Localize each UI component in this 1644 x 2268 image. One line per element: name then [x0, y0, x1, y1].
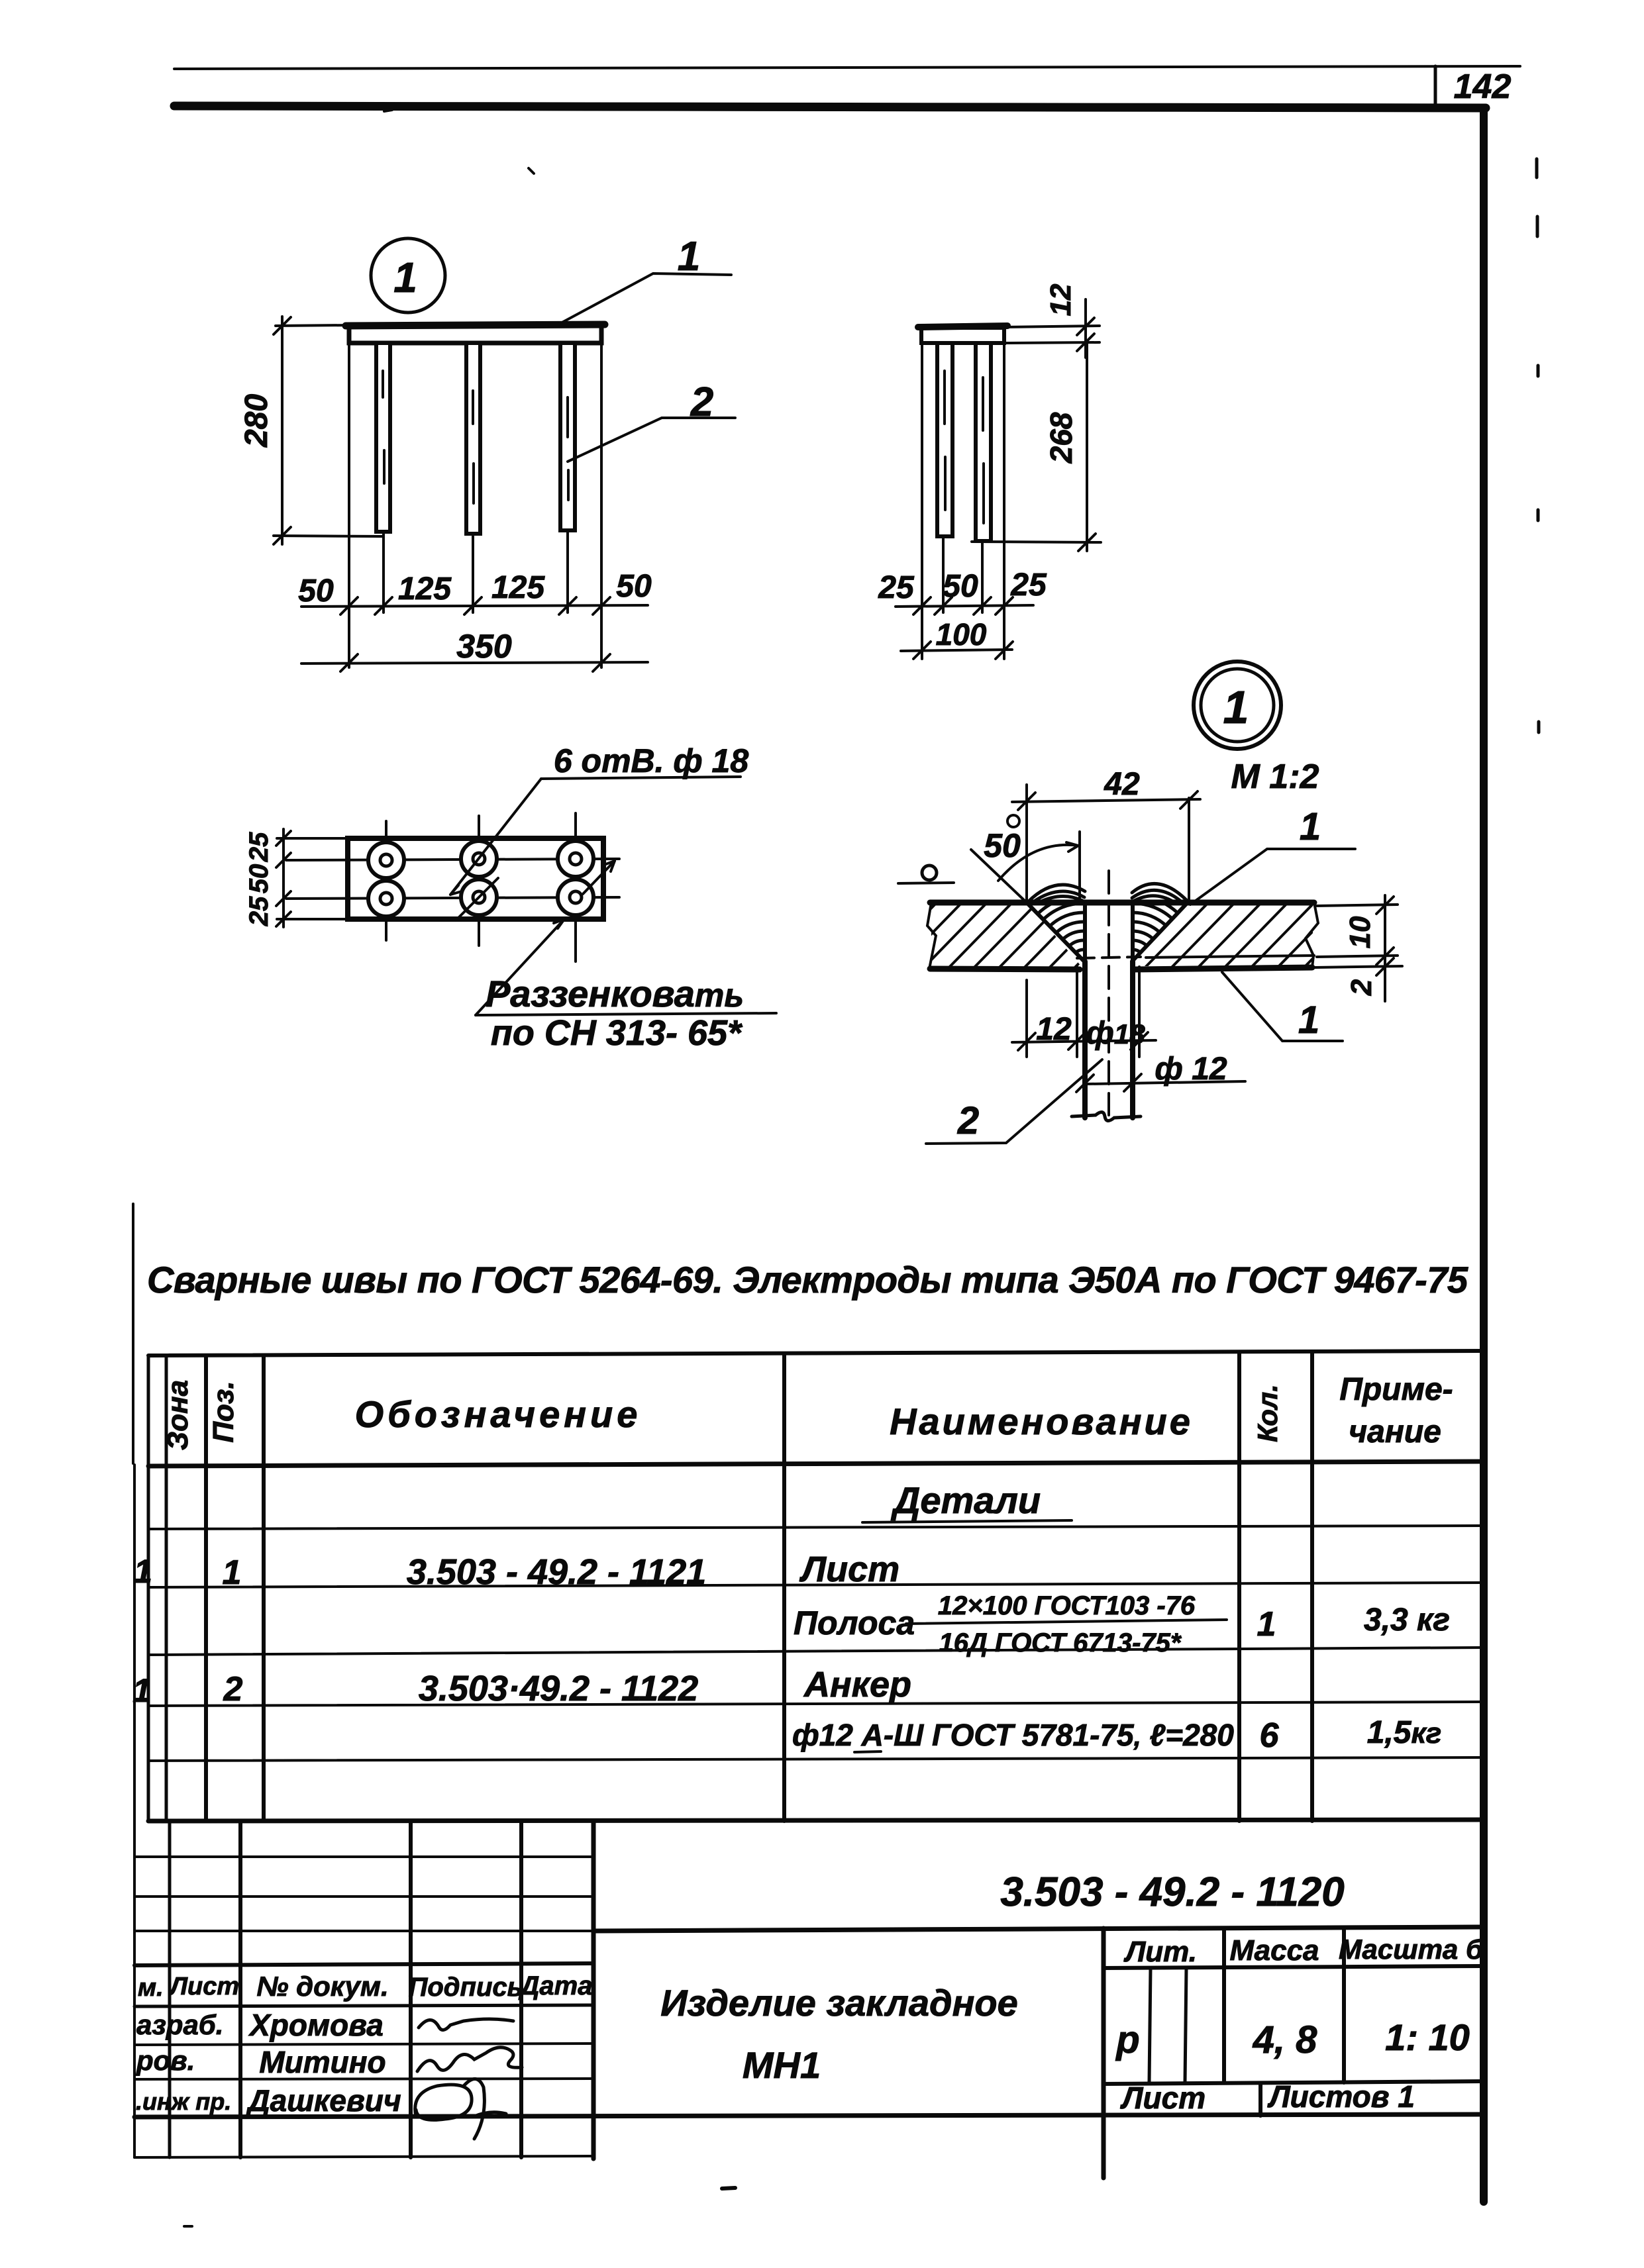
- svg-text:50: 50: [984, 827, 1021, 864]
- svg-text:Лит.: Лит.: [1123, 1936, 1197, 1968]
- detail: dim line 12 / f18: [1012, 1040, 1156, 1042]
- svg-text:1: 1: [1257, 1605, 1276, 1644]
- svg-text:Лист: Лист: [168, 1973, 239, 2000]
- front view: plate (item 1): [349, 326, 601, 343]
- side view: dim 268: [972, 542, 1101, 542]
- title block: left grid horizontals: [134, 1855, 593, 1858]
- detail: countersink slope left: [1027, 903, 1084, 961]
- svg-text:чание: чание: [1349, 1414, 1441, 1450]
- svg-text:р: р: [1115, 2018, 1139, 2061]
- svg-text:1: 1: [134, 1553, 152, 1590]
- svg-text:.инж пр.: .инж пр.: [136, 2088, 231, 2115]
- svg-text:Полоса: Полоса: [794, 1604, 915, 1642]
- svg-text:25: 25: [1010, 567, 1047, 603]
- svg-text:125: 125: [398, 571, 452, 607]
- detail: dim 42 extensions: [1025, 785, 1028, 901]
- top view: hole 4 outer: [368, 881, 404, 916]
- top view: hole 2 outer: [461, 841, 497, 877]
- side view: extension lines below: [921, 344, 923, 659]
- top view: note leader: [476, 919, 564, 1015]
- top view: hole 5 outer: [461, 879, 497, 915]
- svg-text:1: 1: [1298, 999, 1319, 1042]
- svg-text:25: 25: [878, 570, 915, 605]
- title block: signature Dashkevich: [415, 2079, 506, 2139]
- svg-text:Наименование: Наименование: [890, 1401, 1193, 1442]
- svg-text:Раззенковать: Раззенковать: [486, 973, 744, 1014]
- detail: dim line 42: [1012, 799, 1200, 802]
- svg-text:Митино: Митино: [259, 2045, 385, 2079]
- top view: left dim extensions: [277, 837, 350, 840]
- svg-text:Сварные швы по ГОСТ 5264-69. Э: Сварные швы по ГОСТ 5264-69. Электроды т…: [147, 1259, 1468, 1301]
- svg-text:Поз.: Поз.: [207, 1381, 240, 1442]
- svg-text:350: 350: [456, 628, 512, 665]
- front view: leader and label 1: [557, 273, 731, 325]
- top view: hole 5 inner: [473, 891, 485, 903]
- front view: extension lines below: [348, 343, 350, 667]
- svg-text:Обозначение: Обозначение: [355, 1393, 642, 1435]
- front view: dim line 50/125/125/50: [301, 605, 648, 607]
- title block: line under doc number: [593, 1927, 1484, 1931]
- detail: weld cap left: [1028, 885, 1085, 902]
- svg-text:азраб.: азраб.: [136, 2009, 223, 2040]
- svg-text:Изделие закладное: Изделие закладное: [660, 1982, 1018, 2024]
- detail: hole bottom dashed line: [1077, 957, 1141, 958]
- spec table: row lines: [148, 1526, 1484, 1529]
- top view: hole 2 inner: [473, 853, 485, 865]
- svg-text:ф 12: ф 12: [1155, 1052, 1227, 1087]
- svg-text:№ докум.: № докум.: [256, 1971, 388, 2002]
- svg-text:1,5кг: 1,5кг: [1367, 1715, 1442, 1750]
- detail: dim 12 and f18 extensions: [1025, 980, 1028, 1057]
- svg-text:280: 280: [239, 394, 274, 448]
- detail: marker double circle 1: [1194, 662, 1281, 749]
- top view: hole 6 outer: [558, 879, 593, 915]
- detail: right break edge: [1306, 903, 1318, 967]
- svg-text:6: 6: [1260, 1716, 1280, 1755]
- svg-text:1: 1: [223, 1553, 242, 1592]
- svg-text:Дата: Дата: [519, 1971, 593, 2000]
- svg-text:12: 12: [1045, 283, 1077, 316]
- svg-text:142: 142: [1454, 68, 1512, 106]
- svg-text:Кол.: Кол.: [1252, 1384, 1283, 1442]
- page frame: top thin rule: [174, 66, 1520, 69]
- svg-text:3.503·49.2 - 1122: 3.503·49.2 - 1122: [419, 1669, 698, 1708]
- title block: vertical divider name/lit: [1102, 1928, 1106, 2178]
- svg-text:1: 1: [393, 254, 417, 301]
- svg-text:Масса: Масса: [1229, 1934, 1319, 1967]
- svg-text:3.503 - 49.2 - 1120: 3.503 - 49.2 - 1120: [1000, 1869, 1344, 1915]
- svg-text:2: 2: [1345, 979, 1378, 996]
- top view: countersink slash right top hole with arrow: [583, 861, 615, 894]
- front view: dim 280 extension lines: [276, 325, 351, 326]
- detail: plate top edge: [930, 900, 1314, 906]
- top view: hole centerlines horizontal: [286, 859, 619, 860]
- page frame: top thick rule: [174, 106, 1486, 108]
- svg-text:1: 1: [1223, 681, 1249, 733]
- top view: countersink slash middle bottom hole: [456, 878, 498, 920]
- detail: plate bottom edge left part: [930, 969, 1080, 969]
- title block: signature Khromova: [419, 2019, 513, 2030]
- svg-text:6 отВ. ф 18: 6 отВ. ф 18: [554, 742, 749, 779]
- svg-text:1: 1: [132, 1672, 151, 1709]
- title block: left grid verticals: [168, 1821, 172, 2157]
- detail: hatching left section: [868, 897, 1269, 973]
- detail: anchor rod sides: [1082, 961, 1088, 1118]
- side view: dim line 100: [901, 650, 1012, 651]
- svg-text:1: 1: [1300, 805, 1321, 848]
- title block: lit sub cells: [1149, 1968, 1151, 2083]
- svg-text:12×100 ГОСТ103 -76: 12×100 ГОСТ103 -76: [938, 1591, 1196, 1620]
- detail: rod dashed centerline: [1107, 871, 1110, 1115]
- side view: anchor bar front: [937, 343, 952, 536]
- detail: small o mark: [922, 865, 937, 880]
- svg-text:2: 2: [957, 1099, 979, 1142]
- svg-text:Хромова: Хромова: [248, 2008, 384, 2042]
- svg-text:Зона: Зона: [162, 1380, 194, 1450]
- svg-text:ф12 А-Ш ГОСТ 5781-75, ℓ=280: ф12 А-Ш ГОСТ 5781-75, ℓ=280: [792, 1718, 1234, 1752]
- svg-text:16Д ГОСТ 6713-75*: 16Д ГОСТ 6713-75*: [939, 1628, 1182, 1657]
- title block: lit/massa/masshtab header cells: [1104, 1966, 1484, 1968]
- title block: bottom line of name box: [134, 2114, 1484, 2117]
- svg-text:50: 50: [943, 569, 978, 604]
- title block: line under values: [1104, 2081, 1484, 2084]
- svg-text:12: 12: [1036, 1012, 1072, 1047]
- detail: dims 10 and 2 extensions: [1315, 905, 1398, 906]
- top view: hole 6 inner: [570, 891, 582, 903]
- detail: left break edge: [927, 903, 936, 969]
- svg-text:Детали: Детали: [891, 1479, 1041, 1521]
- title block: list / listov row: [1259, 2084, 1262, 2116]
- front view: anchor bar right: [560, 343, 575, 530]
- top view: hole 3 outer: [558, 841, 593, 877]
- top view: plate outline: [348, 838, 603, 919]
- detail: dim line 10/2: [1384, 895, 1386, 1001]
- svg-text:2: 2: [223, 1670, 243, 1708]
- svg-text:Подпись: Подпись: [409, 1973, 523, 2002]
- top view: hole centerlines vertical: [385, 821, 387, 940]
- detail: thin line 2mm weld root right part: [1146, 956, 1314, 958]
- side view: dim line 25/50/25: [896, 605, 1033, 607]
- detail: weld cap right: [1132, 884, 1187, 902]
- top view: hole 1 inner: [380, 854, 392, 866]
- front view: leader and label 2: [568, 418, 735, 462]
- top view: hole 4 inner: [380, 893, 392, 905]
- svg-text:Приме-: Приме-: [1339, 1372, 1453, 1407]
- page number box divider: [1434, 66, 1437, 106]
- svg-text:ров.: ров.: [136, 2045, 195, 2076]
- svg-text:100: 100: [936, 617, 987, 652]
- detail: countersink slope right: [1132, 903, 1188, 961]
- svg-text:Дашкевич: Дашкевич: [245, 2083, 401, 2118]
- svg-text:50: 50: [298, 573, 334, 609]
- margin dashes right of border: [1535, 159, 1539, 177]
- svg-text:М 1:2: М 1:2: [1231, 758, 1319, 796]
- detail: hatching right section: [1086, 894, 1508, 973]
- side view: anchor bar back: [976, 343, 991, 541]
- side view: dim 12 extensions: [1006, 326, 1100, 327]
- detail: dim f12: [1086, 1081, 1245, 1084]
- detail: weld right texture arcs: [1133, 895, 1199, 961]
- svg-text:10: 10: [1344, 916, 1376, 948]
- svg-text:42: 42: [1104, 767, 1140, 802]
- svg-text:25: 25: [244, 832, 274, 862]
- spec table: column lines: [147, 1356, 150, 1821]
- svg-text:4, 8: 4, 8: [1253, 2018, 1317, 2061]
- detail: weld left texture arcs: [1017, 895, 1084, 961]
- svg-text:2: 2: [690, 379, 713, 425]
- svg-text:1: 1: [678, 234, 700, 279]
- svg-text:Листов 1: Листов 1: [1267, 2079, 1415, 2114]
- side view: plate edge-on: [921, 328, 1004, 343]
- svg-text:125: 125: [491, 570, 545, 605]
- svg-text:1: 10: 1: 10: [1385, 2016, 1470, 2058]
- title block: signature Mitina: [417, 2047, 522, 2071]
- stray mark bottom: [722, 2188, 735, 2189]
- svg-text:м.: м.: [138, 1974, 164, 2002]
- svg-text:Масшта б: Масшта б: [1339, 1934, 1484, 1965]
- top view: hole 3 inner: [570, 853, 582, 865]
- detail: rod bottom break: [1072, 1112, 1141, 1120]
- svg-text:50: 50: [244, 864, 274, 894]
- front view: anchor bar left (item 2): [376, 343, 390, 532]
- front view: view marker circle 1: [371, 238, 445, 313]
- svg-text:3,3 кг: 3,3 кг: [1364, 1602, 1450, 1638]
- front view: dim line 350: [301, 662, 648, 664]
- top view: hole 1 outer: [368, 842, 404, 878]
- svg-text:МН1: МН1: [743, 2044, 821, 2086]
- svg-text:Лист: Лист: [1120, 2081, 1206, 2115]
- front view: dim line 280: [281, 317, 283, 544]
- svg-text:3.503 - 49.2 - 1121: 3.503 - 49.2 - 1121: [407, 1552, 706, 1592]
- front view: anchor bar middle: [466, 343, 480, 534]
- side view: dim line 12: [1084, 299, 1087, 358]
- svg-text:Лист: Лист: [799, 1550, 899, 1589]
- svg-text:по СН 313- 65*: по СН 313- 65*: [491, 1013, 743, 1053]
- svg-text:Анкер: Анкер: [803, 1665, 911, 1704]
- svg-text:50: 50: [616, 569, 652, 604]
- svg-text:268: 268: [1044, 412, 1078, 464]
- svg-text:ф18: ф18: [1086, 1016, 1145, 1051]
- top view: left dim line 25/50/25: [282, 829, 285, 927]
- page frame: left border (lower half): [132, 1204, 134, 1463]
- detail: plate bottom edge right part: [1134, 967, 1312, 969]
- spec table: outer and thick lines: [148, 1351, 1484, 1356]
- page frame: right border: [1480, 108, 1488, 2202]
- svg-text:25: 25: [244, 896, 274, 926]
